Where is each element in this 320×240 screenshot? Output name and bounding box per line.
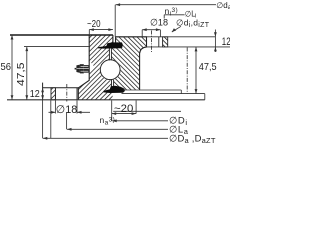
inner ring (right piece) hatched section: [100, 37, 159, 90]
bottom support plate under outer ring: [43, 83, 79, 100]
centre lines (dash-dot): [67, 31, 187, 102]
svg-text:~20: ~20: [87, 18, 101, 30]
gap walls below ball: [112, 79, 114, 90]
svg-text:47,5: 47,5: [15, 62, 27, 86]
grease nipple: [75, 64, 89, 73]
inner ring bottom line: [123, 90, 181, 94]
D_a leader: [43, 100, 168, 139]
47,5 right arrows: [195, 47, 198, 52]
47,5 right dim: [195, 47, 197, 94]
~20 top dim: [89, 30, 113, 35]
dia18 top arrows: [142, 28, 147, 31]
bottom structure line: [113, 110, 181, 112]
svg-text:∅18: ∅18: [150, 18, 168, 29]
svg-text:∅Da ,DaZT: ∅Da ,DaZT: [169, 133, 216, 145]
12 bottom-left arrows: [41, 88, 44, 93]
D_a leader arrow: [43, 137, 48, 140]
56 dim arrows: [11, 35, 14, 40]
inner ring top extension to right: [116, 36, 216, 38]
D_i leader arrow: [112, 119, 117, 122]
d_i slant leader: [172, 26, 181, 32]
d_a leader arrow: [116, 3, 121, 6]
svg-text:∅18: ∅18: [56, 104, 77, 116]
step surface extension to right: [147, 46, 231, 48]
dia18 top dim: [142, 30, 160, 37]
seal, top (black wedge): [98, 42, 123, 48]
D_aZT extension: [50, 101, 52, 139]
D_i leader: [112, 120, 168, 122]
dia18 bottom dim: [49, 101, 91, 114]
12 right dim: [214, 30, 216, 53]
47,5 left arrows: [25, 47, 28, 52]
~20 bottom arrows: [112, 112, 117, 115]
12 right arrows (outside): [214, 32, 217, 37]
~20 bottom dim: [112, 101, 136, 122]
outer ring (left piece) hatched section: [78, 35, 120, 100]
bottom main line: [7, 99, 205, 101]
svg-text:56: 56: [1, 61, 12, 73]
dia18 bottom arrows (outside): [51, 111, 56, 114]
centering ring section, top (d_iZT): [163, 37, 168, 47]
svg-text:47,5: 47,5: [199, 61, 217, 73]
housing shoulder line left (47,5 ref): [24, 46, 89, 48]
d_i slant arrow: [172, 28, 176, 32]
n_i bracket: [164, 15, 184, 19]
L_a leader arrow: [67, 128, 72, 131]
L_a extension: [66, 113, 68, 130]
seal, bottom (black wedge): [103, 86, 125, 93]
arrowheads: [11, 3, 217, 139]
gap walls above ball: [109, 48, 111, 60]
centering ring section, bottom (D_aZT): [51, 88, 55, 100]
ball: [100, 60, 120, 80]
d_a leader: [115, 5, 216, 37]
L_a leader: [67, 128, 168, 130]
svg-text:~20: ~20: [114, 103, 133, 115]
47,5 dim line left: [26, 47, 28, 100]
56 dim line: [11, 35, 13, 100]
svg-text:12: 12: [222, 36, 230, 48]
top band upper edge thick line of outer ring: [10, 34, 113, 36]
plate top line right: [122, 94, 205, 100]
~20 top arrows: [89, 28, 94, 31]
svg-text:12: 12: [30, 88, 40, 100]
